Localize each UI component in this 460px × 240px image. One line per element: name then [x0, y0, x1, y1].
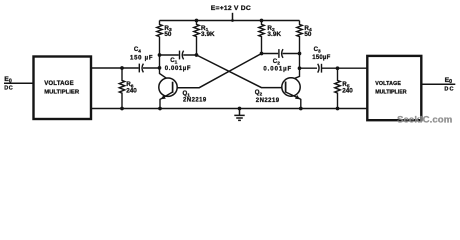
resistor R6 [119, 68, 125, 109]
wire crossover R2 to Q1 base [173, 54, 262, 88]
junction R2 top [260, 19, 264, 23]
terminal E0 DC right [422, 83, 456, 85]
wire Q1 collector branch [160, 37, 173, 83]
wire +12V stem [232, 13, 234, 21]
resistor R4 [297, 21, 303, 54]
junction R5 top [336, 66, 340, 70]
svg-text:2N2219: 2N2219 [183, 97, 207, 103]
junction +12V on rail [231, 19, 234, 22]
junction R6 top [120, 66, 124, 70]
svg-text:50: 50 [164, 31, 172, 38]
capacitor C4 [91, 67, 160, 69]
junction R2 bottom / C2 left [260, 52, 264, 56]
junction Q2 emitter on ground rail [299, 107, 303, 111]
capacitor C3 [300, 67, 368, 69]
junction node C1-left on collector line [158, 53, 162, 57]
resistor R3 [157, 21, 163, 37]
junction C2-right node [298, 52, 302, 56]
Q1 emitter [160, 92, 173, 109]
junction ground on rail [238, 107, 242, 111]
svg-text:50: 50 [304, 31, 312, 38]
svg-text:0.001µF: 0.001µF [165, 66, 191, 72]
svg-text:3.9K: 3.9K [267, 31, 281, 38]
svg-text:3.9K: 3.9K [201, 31, 215, 38]
junction node C4-right on collector line [158, 66, 162, 70]
svg-text:240: 240 [342, 88, 353, 95]
junction R5 bottom [336, 107, 340, 111]
junction R6 bottom [120, 107, 124, 111]
junction R1 top [195, 19, 199, 23]
wire ground rail [91, 108, 367, 110]
terminal E0 DC left [4, 82, 34, 84]
svg-text:SeekIC.com: SeekIC.com [397, 115, 452, 126]
transistor Q2 [282, 78, 300, 96]
svg-text:240: 240 [126, 88, 137, 95]
block left voltage multiplier U1 [34, 57, 92, 120]
svg-text:2N2219: 2N2219 [256, 98, 280, 104]
resistor R1 [194, 21, 200, 56]
Q2 emitter arrow [295, 95, 300, 99]
junction C3-left node [298, 66, 302, 70]
wire top supply rail [160, 20, 300, 22]
capacitor C2 [262, 53, 300, 55]
svg-text:VOLTAGE: VOLTAGE [44, 80, 74, 87]
svg-text:150 µF: 150 µF [130, 55, 153, 61]
capacitor C1 [160, 54, 197, 56]
Q2 base bar [285, 82, 287, 93]
svg-text:VOLTAGE: VOLTAGE [375, 81, 401, 87]
Q1 base bar [172, 82, 174, 93]
svg-text:150µF: 150µF [312, 55, 330, 61]
transistor Q1 [159, 78, 177, 96]
svg-text:0.001µF: 0.001µF [263, 66, 292, 72]
resistor R2 [259, 21, 265, 54]
svg-text:MULTIPLIER: MULTIPLIER [44, 89, 80, 95]
Q2 emitter [286, 92, 301, 109]
ground symbol [239, 109, 241, 116]
Q1 emitter arrow [161, 95, 166, 99]
block right voltage multiplier U2 [367, 56, 421, 120]
svg-text:E=+12 V DC: E=+12 V DC [211, 5, 251, 12]
wire crossover R1 to Q2 base [197, 55, 286, 88]
svg-text:MULTIPLIER: MULTIPLIER [375, 90, 407, 96]
junction R1 bottom / C1 right [195, 53, 199, 57]
wire R4 lower branch to Q2 collector [286, 54, 300, 83]
svg-text:DC: DC [4, 86, 13, 92]
svg-text:DC: DC [444, 86, 454, 92]
junction Q1 emitter on ground rail [158, 107, 162, 111]
resistor R5 [335, 68, 341, 109]
